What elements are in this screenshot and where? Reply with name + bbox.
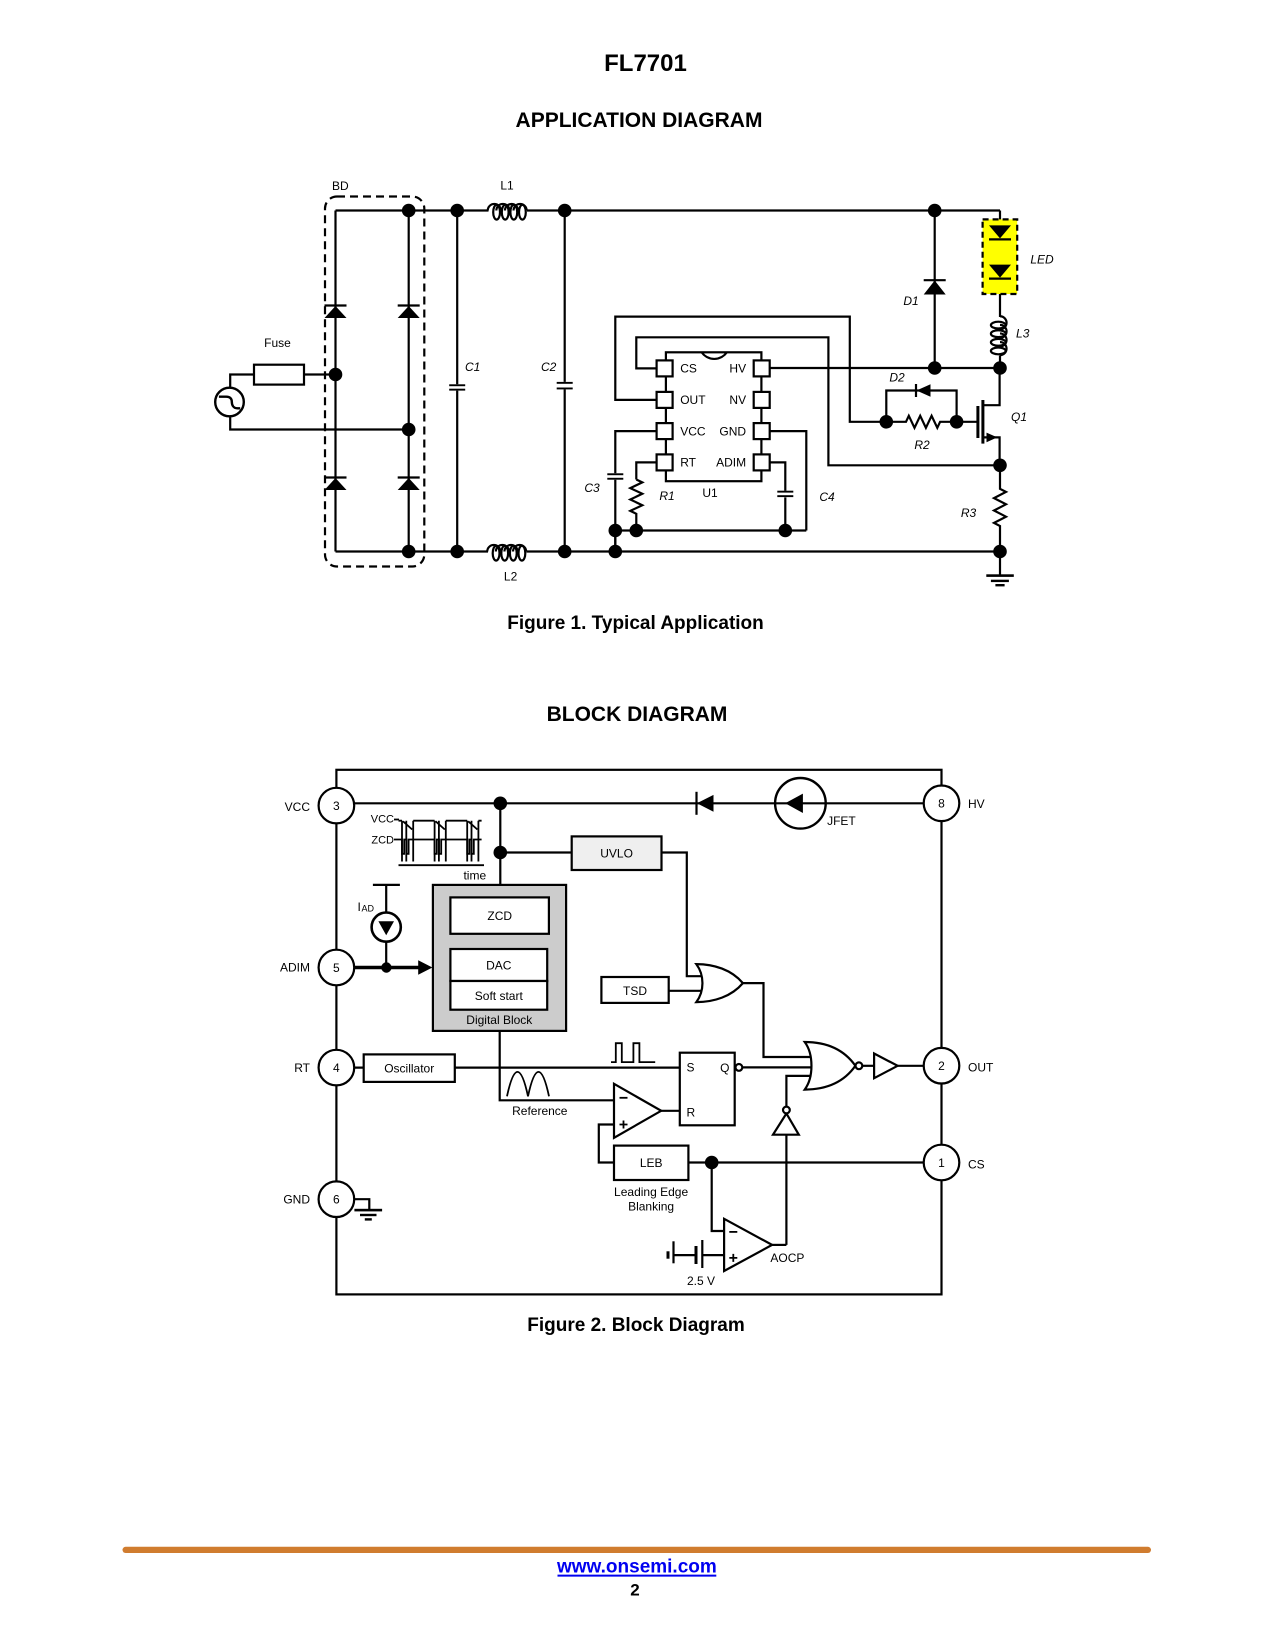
node HV-L3 junction (993, 361, 1007, 375)
node D1 bottom junction (928, 361, 942, 375)
wire HV net (769, 367, 1000, 369)
svg-text:RT: RT (294, 1061, 310, 1075)
inverter (AOCP path) (773, 1107, 799, 1245)
svg-text:GND: GND (719, 424, 746, 438)
svg-text:Reference: Reference (512, 1104, 568, 1118)
inductor L1 (488, 204, 527, 220)
svg-text:L3: L3 (1016, 327, 1030, 341)
bridge rectifier BD dashed outline (325, 197, 424, 567)
svg-text:4: 4 (333, 1061, 340, 1075)
pin label OUT (680, 393, 706, 407)
wire D2 branch (886, 391, 956, 422)
diode D1 (924, 211, 946, 369)
label D1 (903, 294, 918, 308)
node ADIM junction (381, 962, 391, 972)
diode VCC charge (697, 792, 714, 815)
buffer to OUT pin (862, 1054, 941, 1079)
label I_AD (358, 900, 375, 914)
wire ground bus under U1 (615, 529, 806, 531)
wire VCC junction down (499, 803, 501, 885)
wire latch Q to NOR (742, 1066, 812, 1068)
svg-text:R3: R3 (961, 506, 977, 520)
svg-text:L2: L2 (504, 570, 518, 584)
svg-text:BLOCK DIAGRAM: BLOCK DIAGRAM (547, 703, 728, 726)
svg-text:U1: U1 (702, 486, 718, 500)
wire fuse to bridge (304, 373, 336, 375)
wire comparator to latch R (661, 1110, 680, 1112)
pin 6 GND (319, 1181, 355, 1217)
wire OR output to NOR (743, 983, 812, 1057)
pin label GND (719, 424, 746, 438)
svg-text:Figure 2. Block Diagram: Figure 2. Block Diagram (527, 1315, 745, 1336)
wire AOCP output up (772, 1244, 786, 1246)
current source I_AD (372, 885, 401, 968)
wire oscillator to latch S (354, 1066, 680, 1068)
label Q1 (1011, 410, 1027, 424)
label Digital Block (466, 1013, 533, 1027)
pin 5 ADIM (319, 950, 355, 986)
reference sine icon (507, 1072, 549, 1096)
footer link www.onsemi.com (556, 1557, 717, 1578)
svg-text:CS: CS (968, 1158, 985, 1172)
label VCC pin3 (285, 800, 311, 814)
wire CS net (636, 337, 1000, 465)
svg-text:R: R (687, 1106, 696, 1120)
node Q1 source junction (993, 459, 1007, 473)
AC source (215, 388, 244, 417)
ZCD block (450, 897, 549, 933)
comparator AOCP (724, 1219, 772, 1271)
wire OUT net (615, 317, 886, 422)
pin 8 HV (924, 786, 960, 822)
wire AC source bottom to bridge (230, 416, 409, 430)
node D1 top rail junction (928, 204, 942, 218)
capacitor C1 (449, 211, 465, 552)
waveform VCC/ZCD vs time (371, 813, 487, 882)
ground symbol pin6 (354, 1199, 382, 1220)
svg-text:UVLO: UVLO (600, 847, 633, 861)
wire LED string (999, 211, 1001, 369)
label L2 (504, 570, 518, 584)
svg-text:Blanking: Blanking (628, 1199, 674, 1213)
svg-text:R1: R1 (659, 489, 674, 503)
footer rule (123, 1547, 1152, 1553)
node C1 bottom (450, 545, 464, 559)
svg-text:ADIM: ADIM (280, 961, 310, 975)
pin label CS (680, 362, 697, 376)
label C2 (541, 360, 557, 374)
node UVLO tap (494, 846, 508, 860)
wire VCC rail pin3 to pin8 (336, 802, 941, 804)
label HV pin8 (968, 797, 985, 811)
wire GND pin net (769, 431, 806, 530)
wire bridge left leg (334, 211, 336, 552)
wire inverter to NOR (786, 1076, 812, 1107)
Digital Block container (433, 885, 566, 1031)
diode bridge bottom-right (398, 478, 420, 491)
comparator PWM (599, 1084, 661, 1163)
label C3 (584, 481, 600, 495)
pin label ADIM (716, 456, 746, 470)
fuse F1 (254, 365, 304, 385)
pin HV box (754, 360, 770, 376)
svg-text:APPLICATION DIAGRAM: APPLICATION DIAGRAM (516, 109, 763, 132)
svg-text:6: 6 (333, 1193, 340, 1207)
pin label HV (729, 362, 746, 376)
SR latch (680, 1053, 743, 1126)
footer page number (630, 1581, 639, 1600)
svg-text:D2: D2 (889, 371, 905, 385)
OR gate (UVLO/TSD) (669, 964, 743, 1002)
svg-text:Fuse: Fuse (264, 336, 291, 350)
label R3 (961, 506, 977, 520)
pin 3 VCC (319, 788, 355, 824)
svg-text:Q1: Q1 (1011, 410, 1027, 424)
node R1 bottom (630, 524, 644, 538)
svg-text:Oscillator: Oscillator (384, 1061, 434, 1075)
pin ADIM box (754, 454, 770, 470)
wire bottom rail (336, 550, 1001, 552)
LED string (yellow dashed block) (983, 219, 1018, 294)
pulse train icon (611, 1043, 655, 1062)
wire VCC net with capacitor C3 (607, 431, 656, 551)
svg-text:Leading Edge: Leading Edge (614, 1185, 688, 1199)
pin label NV (729, 393, 746, 407)
svg-text:8: 8 (938, 797, 945, 811)
svg-text:3: 3 (333, 799, 340, 813)
svg-text:C3: C3 (584, 481, 600, 495)
Soft start block (450, 981, 547, 1010)
svg-text:S: S (687, 1061, 695, 1075)
pin OUT box (657, 392, 673, 408)
label L3 (1016, 327, 1030, 341)
svg-text:FL7701: FL7701 (604, 50, 687, 77)
pin 2 OUT (924, 1048, 960, 1084)
node C2 top (558, 204, 572, 218)
svg-text:ADIM: ADIM (716, 456, 746, 470)
svg-text:C2: C2 (541, 360, 557, 374)
pin 4 RT (319, 1050, 355, 1086)
node C1 top (450, 204, 464, 218)
wire RT net (636, 462, 656, 479)
svg-text:ZCD: ZCD (371, 835, 394, 847)
label L1 (500, 179, 514, 193)
label U1 (702, 486, 718, 500)
node bus-rail junction (609, 545, 623, 559)
svg-text:5: 5 (333, 961, 340, 975)
svg-text:OUT: OUT (680, 393, 706, 407)
svg-text:AOCP: AOCP (770, 1251, 804, 1265)
wire ADIM arrow into digital block (354, 960, 433, 974)
pin CS box (657, 360, 673, 376)
inductor L3 (991, 316, 1007, 355)
label C1 (465, 360, 480, 374)
node bridge AC return junction (402, 423, 416, 437)
resistor R2 (886, 416, 956, 428)
label R2 (914, 438, 930, 452)
svg-text:TSD: TSD (623, 984, 647, 998)
svg-text:1: 1 (938, 1156, 945, 1170)
svg-text:Soft start: Soft start (475, 989, 524, 1003)
svg-text:VCC: VCC (285, 800, 311, 814)
svg-text:R2: R2 (914, 438, 930, 452)
node C4 bottom (779, 524, 793, 538)
svg-text:BD: BD (332, 179, 349, 193)
svg-text:time: time (463, 869, 486, 883)
pin GND box (754, 423, 770, 439)
label R1 (659, 489, 674, 503)
wire bus to bottom rail (614, 531, 616, 552)
svg-text:ZCD: ZCD (487, 909, 512, 923)
svg-text:NV: NV (729, 393, 746, 407)
inductor L2 (487, 545, 526, 561)
label C4 (819, 490, 835, 504)
node C3 bottom (609, 524, 623, 538)
Oscillator block (364, 1054, 455, 1082)
svg-text:Q: Q (720, 1061, 729, 1075)
pin VCC box (657, 423, 673, 439)
node D2/R2 left (880, 415, 894, 429)
wire junction to AOCP minus (712, 1163, 724, 1232)
node D2/R2 right (gate) (950, 415, 964, 429)
svg-text:OUT: OUT (968, 1060, 994, 1074)
pin label VCC (680, 424, 706, 438)
svg-text:Figure 1. Typical Application: Figure 1. Typical Application (507, 613, 764, 634)
label LED (1030, 253, 1054, 267)
node VCC junction (494, 797, 508, 811)
label Fuse (264, 336, 291, 350)
svg-text:GND: GND (283, 1192, 310, 1206)
heading BLOCK DIAGRAM (547, 703, 728, 726)
node bridge top output (402, 204, 416, 218)
node bridge bottom output (402, 545, 416, 559)
wire reference net from digital block (500, 1031, 614, 1100)
heading APPLICATION DIAGRAM (516, 109, 763, 132)
label D2 (889, 371, 905, 385)
label Reference (512, 1104, 568, 1118)
svg-text:VCC: VCC (371, 813, 394, 825)
wire UVLO to OR gate (662, 853, 705, 977)
transistor Q1 (957, 368, 1000, 465)
node R3 bottom rail (993, 545, 1007, 559)
label JFET (827, 814, 856, 828)
label BD (332, 179, 349, 193)
capacitor C2 (557, 211, 573, 552)
pin NV box (754, 392, 770, 408)
node fuse-bridge junction (329, 368, 343, 382)
caption Figure 1 (507, 613, 764, 634)
label RT pin4 (294, 1061, 310, 1075)
TSD block (601, 977, 668, 1003)
svg-text:HV: HV (729, 362, 746, 376)
resistor R1 (630, 480, 642, 531)
svg-text:C1: C1 (465, 360, 480, 374)
caption Figure 2 (527, 1315, 745, 1336)
label Leading Edge Blanking (614, 1185, 688, 1213)
svg-text:D1: D1 (903, 294, 918, 308)
label 2.5 V (687, 1274, 715, 1288)
battery 2.5V (668, 1240, 724, 1268)
UVLO block (572, 836, 662, 870)
wire AC source to fuse (230, 375, 254, 389)
pin label RT (680, 456, 696, 470)
svg-text:JFET: JFET (827, 814, 856, 828)
wire bridge right leg (408, 211, 410, 552)
LEB block (614, 1146, 688, 1180)
svg-text:HV: HV (968, 797, 985, 811)
svg-text:Digital Block: Digital Block (466, 1013, 533, 1027)
svg-text:RT: RT (680, 456, 696, 470)
label CS pin1 (968, 1158, 985, 1172)
svg-text:AD: AD (362, 904, 375, 914)
wire LEB to CS pin (688, 1161, 941, 1163)
label AOCP (770, 1251, 804, 1265)
wire to UVLO (500, 851, 571, 853)
wire ADIM net with capacitor C4 (769, 462, 793, 530)
svg-text:VCC: VCC (680, 424, 706, 438)
svg-text:www.onsemi.com: www.onsemi.com (556, 1557, 717, 1578)
wire top rail (336, 209, 1001, 211)
node LEB junction (705, 1156, 719, 1170)
svg-text:C4: C4 (819, 490, 835, 504)
svg-text:I: I (358, 900, 361, 914)
diode D2 (916, 384, 931, 397)
op-amp U1 IC body (666, 352, 762, 481)
resistor R3 (994, 465, 1006, 551)
pin RT box (657, 454, 673, 470)
svg-text:2.5 V: 2.5 V (687, 1274, 715, 1288)
svg-text:CS: CS (680, 362, 697, 376)
label GND pin6 (283, 1192, 310, 1206)
diode bridge top-left (325, 306, 347, 319)
pin 1 CS (924, 1145, 960, 1181)
label ADIM pin5 (280, 961, 310, 975)
JFET current source (775, 778, 826, 829)
svg-text:LEB: LEB (640, 1156, 663, 1170)
svg-text:DAC: DAC (486, 959, 512, 973)
diode bridge top-right (398, 306, 420, 319)
block diagram outer border (336, 770, 941, 1295)
title FL7701 (604, 50, 687, 77)
label OUT pin2 (968, 1060, 994, 1074)
svg-text:LED: LED (1030, 253, 1054, 267)
svg-text:L1: L1 (500, 179, 514, 193)
NOR gate (805, 1042, 863, 1090)
node C2 bottom (558, 545, 572, 559)
diode bridge bottom-left (325, 478, 347, 491)
DAC block (450, 949, 547, 981)
svg-text:2: 2 (938, 1059, 945, 1073)
svg-text:2: 2 (630, 1581, 639, 1600)
ground symbol (986, 552, 1014, 587)
